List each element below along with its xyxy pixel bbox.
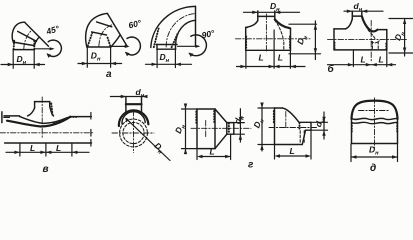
tee 2 centerlines [328, 38, 408, 40]
svg-text:L: L [30, 143, 35, 153]
reducer 2 dimension dн right [312, 112, 328, 139]
svg-text:L: L [210, 147, 215, 157]
tee 1 dimension Dн right [289, 21, 321, 60]
tee 2 weld seam on right end [385, 44, 387, 51]
elbow 45deg horizontal reference line [35, 48, 53, 50]
reducer 2 hidden bore [299, 131, 301, 144]
reducer 1 centerline [191, 127, 251, 129]
branch end view: neck [126, 97, 142, 112]
tee 2 dimension L L bottom [328, 50, 396, 66]
tee 2 dimension dн top [344, 10, 383, 12]
tee 2 hidden bore [363, 18, 376, 40]
branch end view: diagonal Dн leader [126, 119, 170, 161]
welded branch side view: saddle seam arcs [7, 117, 70, 127]
svg-text:L: L [56, 143, 61, 153]
svg-text:90°: 90° [201, 28, 216, 41]
welded branch side view: centerlines [0, 132, 93, 134]
reducer 2 centerline [269, 127, 317, 129]
reducer 1 dimension dн right [234, 109, 244, 142]
tee 2 dimension Dн right [389, 19, 413, 57]
svg-text:в: в [43, 164, 49, 173]
elbow 90deg weld seams [154, 29, 159, 48]
tee 1 weld seam on left end [245, 37, 247, 50]
svg-text:L: L [290, 146, 295, 156]
elbow 60deg centerline arc [99, 24, 114, 46]
svg-text:L: L [278, 52, 283, 62]
elbow 60deg dimension Dн [78, 48, 122, 68]
elbow 90deg horizontal reference line [178, 45, 199, 47]
svg-text:Dн: Dн [151, 140, 166, 156]
svg-text:д: д [370, 163, 376, 173]
svg-text:а: а [106, 69, 112, 80]
elbow 45deg centerline arc [24, 30, 32, 49]
branch end view: saddle arcs [119, 110, 149, 126]
elbow 90deg rotation arrow [190, 35, 207, 56]
svg-text:L: L [379, 54, 384, 64]
elbow 90deg dimension Dн [146, 50, 192, 68]
svg-text:45°: 45° [44, 23, 61, 37]
cap dimension Dн [351, 144, 398, 162]
cap weld wavy seams [352, 118, 398, 119]
reducer 1 dimension Dн left [182, 104, 197, 154]
reducer 1 weld seams [195, 112, 197, 124]
tee 1 dimension L L bottom [237, 30, 306, 68]
elbow 45deg weld seams [13, 39, 16, 50]
tee 1 body [246, 11, 291, 50]
elbow 90deg body [151, 6, 196, 49]
welded branch side view: branch neck [28, 102, 54, 116]
reducer 2 weld seams [273, 111, 275, 123]
elbow 60deg weld seams [88, 33, 92, 46]
svg-text:L: L [361, 54, 366, 64]
svg-text:Dн: Dн [91, 51, 101, 63]
elbow 60deg body [86, 13, 128, 47]
reducer 2 dimension L [275, 131, 312, 159]
elbow 45deg rotation arrow [48, 40, 62, 56]
reducer 1 body [197, 109, 234, 149]
welded branch side view: main pipe [4, 116, 92, 143]
branch end view: centerlines [112, 132, 154, 134]
branch end view: dimension dн [110, 96, 146, 98]
svg-text:Dн: Dн [295, 33, 310, 47]
svg-text:Dн: Dн [369, 145, 379, 157]
tee 1 hidden bore [275, 20, 284, 40]
svg-text:Dн: Dн [251, 116, 266, 130]
svg-text:г: г [248, 160, 254, 171]
reducer 2 body [275, 108, 312, 145]
elbow 45deg dimension Dн [1, 50, 45, 68]
elbow 60deg horizontal reference line [113, 45, 128, 47]
elbow 45deg body [12, 22, 48, 49]
tee 1 weld seam on right end [289, 37, 291, 50]
welded branch side view: weld seam [51, 104, 52, 115]
svg-text:Dн: Dн [160, 52, 170, 64]
cap centerlines [359, 110, 389, 112]
elbow 90deg centerline arc [166, 14, 195, 47]
tee 1 dimension Dн top [244, 11, 300, 13]
cap dome [352, 101, 398, 144]
tee 2 weld seam on left end [334, 43, 336, 50]
cap weld dots [351, 123, 353, 132]
svg-text:L: L [259, 52, 264, 62]
welded branch side view: pipe break marks [1, 112, 3, 123]
welded branch side view: saddle weld dots [54, 118, 69, 124]
tee 2 body [334, 11, 387, 50]
elbow 60deg rotation arrow [126, 37, 140, 55]
reducer 2 dimension Dн left [258, 104, 274, 151]
svg-text:60°: 60° [127, 17, 142, 30]
branch end view: pipe circle [120, 119, 148, 147]
welded branch side view: dimension L L [6, 144, 89, 157]
reducer 1 dimension L [197, 135, 231, 160]
tee 1 centerlines [236, 38, 311, 40]
